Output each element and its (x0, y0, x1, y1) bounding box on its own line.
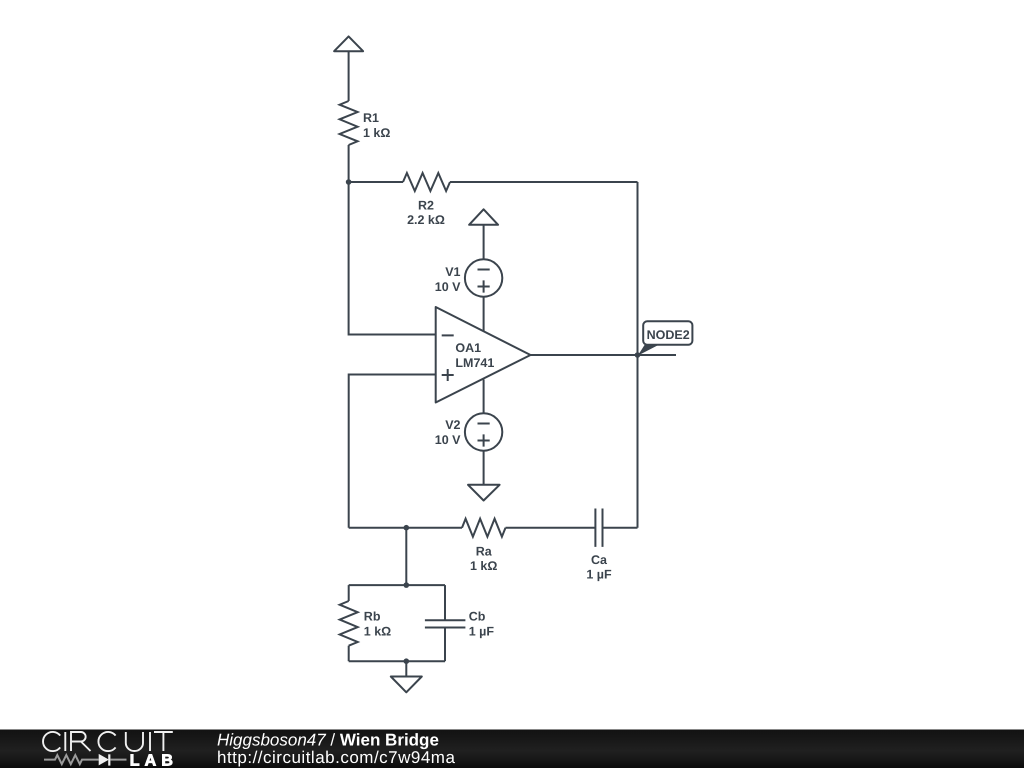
node A junction dot (346, 179, 352, 185)
svg-text:10 V: 10 V (435, 433, 461, 447)
svg-text:NODE2: NODE2 (647, 328, 690, 342)
wire V2 to ground (483, 451, 485, 485)
wire R1 to node A (348, 145, 350, 182)
svg-text:V1: V1 (445, 265, 460, 279)
wire top rail to Rb (348, 585, 350, 601)
wire R2 to right rail (450, 181, 638, 183)
wire op-amp noninverting input to left rail (349, 375, 436, 528)
op-amp inverting input minus sign (442, 334, 454, 336)
capacitor Cb (425, 620, 466, 627)
V1 plus sign (478, 280, 490, 292)
V1 minus sign (478, 269, 490, 271)
svg-text:Higgsboson47 / Wien Bridge: Higgsboson47 / Wien Bridge (217, 730, 439, 749)
wire V1 to op-amp top (483, 297, 485, 332)
wire Rb to bottom rail (348, 646, 350, 662)
CircuitLab logo diode (99, 754, 109, 766)
footer bar (0, 730, 1024, 768)
wire RbCb top rail (349, 584, 445, 586)
ground (below V2) (468, 485, 500, 501)
ground (bottom) (391, 677, 422, 693)
wire node B down to RbCb (405, 528, 407, 585)
power supply V+ arrow above V1 (469, 209, 498, 225)
resistor R2 (403, 173, 450, 191)
wire RbCb bottom rail (349, 660, 445, 662)
V2 plus sign (478, 434, 490, 446)
wire node D to ground (405, 661, 407, 676)
wire op-amp bottom to V2 (483, 380, 485, 414)
svg-text:R2: R2 (418, 199, 434, 213)
svg-text:Cb: Cb (469, 610, 486, 624)
svg-text:Ra: Ra (476, 545, 493, 559)
svg-text:OA1: OA1 (455, 341, 481, 355)
svg-text:Rb: Rb (364, 610, 381, 624)
wire Ca to right rail corner (603, 527, 638, 529)
svg-text:Ca: Ca (591, 553, 608, 567)
svg-text:1 µF: 1 µF (586, 568, 612, 582)
svg-text:1 kΩ: 1 kΩ (363, 126, 390, 140)
wire node A to R2 (349, 181, 403, 183)
wire op-amp output (531, 354, 638, 356)
svg-text:1 kΩ: 1 kΩ (470, 559, 497, 573)
voltage source V1 circle (465, 259, 502, 296)
svg-text:V2: V2 (445, 418, 460, 432)
op-amp noninverting input plus sign (442, 369, 454, 381)
wire Ra to Ca (506, 527, 596, 529)
resistor Rb (340, 601, 358, 646)
svg-text:http://circuitlab.com/c7w94ma: http://circuitlab.com/c7w94ma (217, 748, 455, 767)
wire bottom rail left segment (349, 527, 462, 529)
svg-text:LM741: LM741 (455, 356, 494, 370)
resistor R1 (340, 101, 358, 145)
V2 minus sign (478, 423, 490, 425)
node D junction dot (RbCb bottom) (404, 658, 410, 664)
wire Cb to bottom rail (444, 628, 446, 662)
wire right rail vertical (637, 182, 639, 528)
CircuitLab logo resistor squiggle (44, 755, 99, 764)
wire VCC to R1 (348, 51, 350, 101)
voltage source V2 circle (465, 413, 502, 450)
wire node A to op-amp inverting input (349, 182, 436, 335)
node C junction dot (RbCb top) (404, 582, 410, 588)
svg-text:1 kΩ: 1 kΩ (364, 625, 391, 639)
op-amp OA1 triangle (436, 307, 531, 403)
svg-text:2.2 kΩ: 2.2 kΩ (407, 213, 445, 227)
power supply VCC arrow (top) (334, 36, 363, 51)
NODE2 flag pointer wedge (638, 345, 659, 356)
capacitor Ca (595, 509, 602, 547)
svg-text:LAB: LAB (130, 752, 178, 768)
wire NODE2 flag stub (638, 354, 677, 356)
CircuitLab logo wordmark CIRCUIT (43, 732, 173, 751)
resistor Ra (462, 519, 506, 537)
node B junction dot (bottom rail) (404, 525, 410, 531)
wire V+ arrow to V1 (483, 225, 485, 259)
svg-text:R1: R1 (363, 111, 379, 125)
node NODE2 junction dot (635, 352, 641, 358)
NODE2 flag box (643, 321, 692, 344)
svg-text:10 V: 10 V (435, 280, 461, 294)
wire top rail to Cb (444, 585, 446, 620)
svg-text:1 µF: 1 µF (469, 625, 495, 639)
